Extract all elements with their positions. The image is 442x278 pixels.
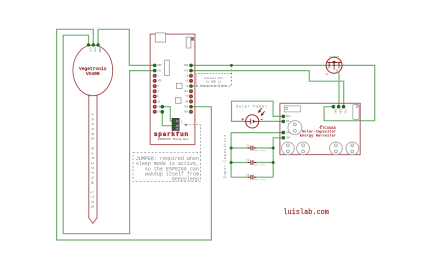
ESP right pin labels bbox=[184, 64, 189, 113]
small component square 2 bbox=[176, 98, 182, 104]
note leader dashed arrow bbox=[186, 125, 200, 153]
connect-pin note text bbox=[200, 76, 227, 88]
wire ESP jumper pin upper bbox=[162, 107, 174, 121]
capacitor C2 bbox=[246, 159, 266, 166]
svg-text:C1: C1 bbox=[246, 145, 250, 148]
small component square 1 bbox=[177, 83, 183, 88]
svg-text:Solar Panel: Solar Panel bbox=[236, 104, 267, 109]
svg-text:GND: GND bbox=[184, 64, 189, 67]
solar panel SP1 bbox=[242, 108, 265, 128]
LTC right connector bbox=[353, 105, 359, 120]
wire capacitor bank right rail bbox=[273, 138, 283, 177]
wire capacitor bank left rail bbox=[231, 133, 283, 178]
svg-text:GND: GND bbox=[157, 64, 162, 67]
USB connector bbox=[155, 33, 165, 42]
svg-text:XPD: XPD bbox=[157, 80, 162, 83]
svg-text:SCL: SCL bbox=[184, 90, 189, 93]
svg-text:3V3: 3V3 bbox=[184, 106, 189, 109]
svg-text:VCC: VCC bbox=[157, 69, 162, 72]
svg-text:SOL+: SOL+ bbox=[286, 115, 292, 118]
LTC mid terminal bbox=[288, 121, 302, 135]
jumper JP1 body bbox=[172, 118, 179, 130]
svg-text:C3: C3 bbox=[246, 174, 250, 177]
wire sensor VCC loop (inner, to ESP ADC pin) bbox=[63, 35, 155, 234]
svg-text:VCC: VCC bbox=[184, 69, 189, 72]
svg-text:Deepsleep: Deepsleep bbox=[172, 177, 199, 183]
svg-text:Q1: Q1 bbox=[326, 73, 330, 76]
svg-text:10F, 5.5V: 10F, 5.5V bbox=[254, 164, 267, 167]
svg-text:luislab.com: luislab.com bbox=[283, 209, 329, 217]
wire ESP pin2 to LTC VCC pin bbox=[191, 71, 344, 107]
svg-text:OUT: OUT bbox=[93, 47, 96, 52]
ESP inset jumper pins bbox=[161, 105, 165, 109]
wire dashed sleep-disable net bbox=[191, 65, 231, 86]
connect-pin dashed red box bbox=[196, 74, 231, 87]
capacitor C1 bbox=[246, 145, 266, 152]
wire solar panel plus to LTC pin2 bbox=[259, 120, 284, 122]
svg-text:VTP2610N: VTP2610N bbox=[329, 55, 340, 58]
svg-text:ESP8266 Thing Dev: ESP8266 Thing Dev bbox=[158, 137, 189, 141]
LTC left pins bbox=[282, 115, 286, 119]
wire solar panel frame to LTC pin1 bbox=[232, 101, 284, 121]
svg-text:VCC: VCC bbox=[343, 109, 346, 114]
svg-text:GND: GND bbox=[98, 47, 101, 52]
LTC top pins BAT GND VCC bbox=[332, 105, 336, 109]
wire sensor OUT loop (outer, to ESP 3V3 pin) bbox=[57, 29, 212, 240]
wire ESP pin1 to MOSFET and loop to LTC BAT pin bbox=[191, 65, 375, 120]
note box dashed bbox=[133, 152, 200, 181]
svg-text:ADC: ADC bbox=[184, 111, 189, 114]
svg-text:Super-Capacitors: Super-Capacitors bbox=[223, 135, 227, 179]
svg-text:C2: C2 bbox=[246, 159, 250, 162]
note text JUMPER bbox=[136, 156, 199, 183]
LTC3588 board outline bbox=[280, 103, 360, 154]
sensor probe body VH400 bbox=[73, 45, 113, 223]
LTC left pin labels bbox=[286, 115, 292, 139]
svg-text:sparkfun: sparkfun bbox=[154, 131, 189, 138]
svg-text:VH400: VH400 bbox=[86, 71, 100, 77]
LTC top pin labels bbox=[333, 109, 346, 114]
junction cap rail dots bbox=[230, 147, 275, 165]
svg-text:BAT: BAT bbox=[333, 109, 336, 114]
svg-text:JP3: JP3 bbox=[180, 120, 183, 125]
transistor Q1 VTP2610N bbox=[326, 57, 342, 73]
wire ESP jumper pin lower bbox=[162, 112, 174, 126]
wire capacitor row C1 bbox=[231, 147, 273, 149]
sensor pins VCC OUT GND bbox=[87, 43, 100, 46]
ESP right pin column bbox=[189, 64, 193, 114]
svg-text:10F, 5.5V: 10F, 5.5V bbox=[254, 178, 267, 181]
sensor label Vegetronix VH400 bbox=[79, 66, 107, 77]
ESP8266 Thing Dev board outline bbox=[150, 34, 195, 145]
jumper pins bbox=[173, 119, 176, 122]
ESP left pin column bbox=[153, 64, 157, 114]
ESP left pin labels bbox=[157, 64, 162, 113]
LTC label leader bbox=[320, 125, 322, 127]
svg-text:Connect Pin: Connect Pin bbox=[204, 76, 223, 80]
junction ESP pin1 net bbox=[230, 64, 233, 67]
top-right component bbox=[186, 37, 191, 48]
capacitor C3 bbox=[246, 174, 266, 181]
LTC bottom terminals bbox=[282, 142, 359, 155]
svg-text:to GND to: to GND to bbox=[206, 81, 221, 84]
sensor pin labels bbox=[88, 47, 101, 52]
svg-text:GND: GND bbox=[339, 109, 342, 114]
LTC label text bbox=[300, 127, 337, 139]
svg-text:10F, 5.5V: 10F, 5.5V bbox=[254, 149, 267, 152]
wire capacitor row C2 bbox=[231, 162, 273, 164]
wire MOSFET drain to LTC GND pin bbox=[338, 73, 340, 107]
wire capacitor row C3 bbox=[231, 176, 273, 178]
svg-text:VCC: VCC bbox=[88, 47, 91, 52]
ESP module rect bbox=[165, 60, 170, 75]
svg-text:CAP-: CAP- bbox=[286, 137, 292, 140]
svg-text:Energy Harvester: Energy Harvester bbox=[300, 134, 336, 139]
svg-text:deactivate Sleep: deactivate Sleep bbox=[200, 83, 227, 87]
wire sensor GND to ESP GND pin bbox=[98, 29, 155, 65]
LTC top-left connector bbox=[284, 106, 300, 112]
